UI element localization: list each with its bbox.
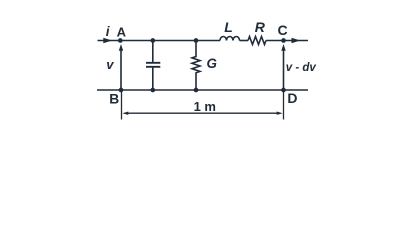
dimension arrow head left	[122, 112, 128, 115]
node D	[281, 88, 286, 93]
node A	[118, 38, 123, 43]
voltage arrow v shaft (left)	[120, 50, 122, 90]
voltage arrow head v (left, pointing up)	[119, 44, 123, 51]
node B	[119, 88, 124, 93]
inductor L	[220, 37, 240, 41]
junction: capacitor top	[150, 38, 155, 43]
svg-text:v - dv: v - dv	[286, 62, 317, 74]
wire: top conductor from input through node A to inductor	[98, 40, 221, 42]
svg-text:R: R	[255, 19, 266, 35]
capacitor bottom lead	[152, 68, 154, 91]
svg-text:1 m: 1 m	[194, 99, 216, 114]
junction: G bottom	[194, 88, 199, 93]
svg-text:L: L	[224, 19, 233, 35]
svg-text:D: D	[287, 90, 297, 106]
capacitor top lead	[152, 41, 154, 63]
junction: capacitor bottom	[150, 88, 155, 93]
wire: top conductor from resistor R through node C to output	[266, 40, 308, 42]
resistor R	[248, 37, 266, 45]
svg-text:G: G	[207, 56, 217, 71]
dimension arrow head right	[277, 112, 283, 115]
junction: G top	[194, 38, 199, 43]
wire: top conductor between inductor L and resistor R	[240, 40, 249, 42]
current arrow head at input (i)	[103, 38, 112, 44]
svg-text:v: v	[106, 57, 114, 72]
voltage arrow v-dv shaft (right)	[283, 50, 285, 90]
svg-text:C: C	[278, 22, 288, 38]
svg-text:i: i	[106, 24, 110, 39]
voltage arrow head v-dv (right, pointing up)	[281, 44, 285, 51]
svg-text:B: B	[109, 91, 119, 106]
current arrow head at output (after C)	[292, 38, 301, 44]
dimension line 1 m	[127, 112, 279, 114]
svg-text:A: A	[117, 25, 127, 40]
capacitor plates	[146, 63, 160, 67]
wire: bottom conductor B to D	[97, 89, 308, 91]
conductance G zigzag	[192, 41, 200, 91]
dimension extension line at B	[121, 92, 123, 120]
node C	[281, 38, 286, 43]
dimension extension line at D	[283, 92, 285, 120]
